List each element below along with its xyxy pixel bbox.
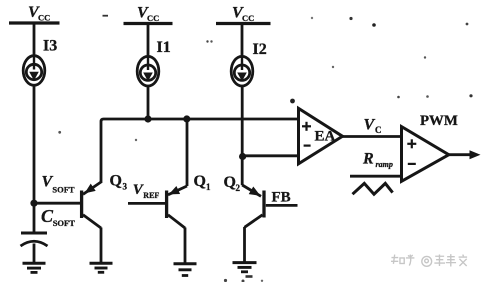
- wire Vref to base of Q1: [128, 202, 165, 205]
- wire Vcc2 to current source I1: [147, 24, 150, 58]
- wire Vcc3 to current source I2: [241, 24, 244, 58]
- svg-text:C: C: [375, 125, 382, 135]
- svg-text:3: 3: [123, 182, 128, 192]
- label Vref: [133, 182, 160, 200]
- svg-text:CC: CC: [147, 13, 159, 23]
- wire FB to base of Q2: [266, 204, 298, 207]
- transistor Q1 (PNP): [167, 186, 187, 228]
- label Vcc 3: [232, 5, 254, 24]
- svg-text:SOFT: SOFT: [52, 185, 75, 195]
- svg-text:R: R: [362, 151, 374, 168]
- svg-text:Q: Q: [110, 173, 122, 190]
- power rail Vcc bar 1: [9, 21, 60, 24]
- current source I1: [137, 56, 159, 86]
- wire PWM output with arrow: [449, 150, 481, 159]
- transistor Q2 (PNP, mirrored): [242, 185, 264, 227]
- wire Vcc1 to current source I3: [33, 23, 36, 57]
- label FB: [272, 190, 291, 206]
- wire node Vsoft to base of Q3: [34, 202, 81, 205]
- svg-text:CC: CC: [242, 13, 254, 23]
- op-amp EA error amplifier: [299, 108, 343, 164]
- label I3: [43, 38, 57, 55]
- ground G2 (under Q3): [90, 263, 113, 272]
- label Q3: [110, 173, 128, 192]
- current source I3: [23, 56, 45, 86]
- wire I1 to bus: [147, 86, 150, 119]
- svg-text:Q: Q: [194, 173, 206, 190]
- node bus/Q1 junction dot: [183, 115, 190, 122]
- label Vcc 2: [137, 5, 159, 24]
- node I2/EA-minus junction dot: [239, 153, 246, 160]
- capacitor Csoft: [21, 233, 48, 246]
- wire capacitor to ground: [33, 244, 36, 263]
- wire Q2 collector to ground: [243, 227, 246, 262]
- label Rramp: [362, 151, 393, 170]
- wire node to EA inverting input: [243, 154, 299, 157]
- svg-text:I2: I2: [253, 41, 267, 58]
- node bus/I1 junction dot: [144, 115, 151, 122]
- ground G4 (under Q2): [233, 263, 257, 272]
- wire Q1 collector to ground: [184, 228, 187, 264]
- svg-text:I3: I3: [43, 38, 57, 55]
- wire bus: Q3 emitter up, bend, horizontal bus to EA + input: [101, 119, 299, 183]
- label EA: [315, 129, 336, 145]
- svg-text:EA: EA: [315, 129, 336, 145]
- label PWM: [420, 113, 458, 129]
- wire node down to Q2 emitter: [241, 157, 244, 186]
- wire I2 down across bus to node at EA minus branch: [241, 86, 244, 157]
- power rail Vcc bar 2: [124, 22, 173, 25]
- comparator PWM: [402, 127, 449, 182]
- svg-text:SOFT: SOFT: [53, 218, 76, 228]
- label Vcc 1: [28, 4, 50, 23]
- svg-text:CC: CC: [38, 13, 50, 23]
- ground G1 (under Csoft): [23, 263, 46, 272]
- wire EA output to PWM + input: [342, 135, 402, 138]
- svg-text:1: 1: [206, 182, 211, 192]
- label Csoft: [41, 206, 75, 228]
- svg-text:ramp: ramp: [376, 160, 393, 169]
- svg-text:I1: I1: [157, 39, 171, 56]
- label I2: [253, 41, 267, 58]
- power rail Vcc bar 3: [216, 22, 271, 25]
- svg-text:REF: REF: [143, 191, 159, 200]
- wire Q3 collector to ground: [100, 228, 103, 263]
- transistor Q3 (PNP): [82, 182, 101, 228]
- node Vsoft junction dot: [30, 200, 37, 207]
- label Q2: [224, 174, 241, 193]
- ground G3 (under Q1): [174, 264, 197, 276]
- current source I2: [231, 56, 253, 86]
- wire bus down to Q1 emitter: [186, 119, 189, 186]
- sawtooth ramp waveform symbol: [353, 183, 393, 194]
- label Q1: [194, 173, 212, 192]
- label Vc: [364, 117, 382, 136]
- svg-text:2: 2: [236, 183, 241, 193]
- svg-text:Q: Q: [224, 174, 236, 191]
- label Vsoft: [42, 174, 75, 195]
- label I1: [157, 39, 171, 56]
- watermark zhihu text: [391, 254, 467, 266]
- svg-text:FB: FB: [272, 190, 291, 206]
- wire ramp input to PWM - input: [350, 175, 402, 178]
- wire node Vsoft down to capacitor: [33, 203, 36, 231]
- svg-text:PWM: PWM: [420, 113, 458, 129]
- svg-text:V: V: [364, 117, 376, 134]
- wire I3 to node Vsoft: [33, 85, 36, 204]
